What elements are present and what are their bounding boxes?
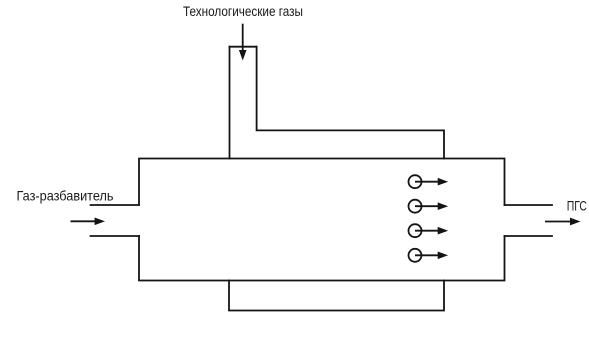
nozzle 2 (circle with jet arrow) <box>409 200 447 213</box>
arrow: product gas mixture outlet flow <box>545 218 579 224</box>
arrow: diluent gas inlet flow <box>71 218 104 224</box>
nozzle 1 (circle with jet arrow) <box>409 175 447 188</box>
svg-text:ПГС: ПГС <box>567 197 587 213</box>
top feed pipe left wall (Технологические газы) <box>229 47 231 159</box>
bottom tray under vessel <box>229 281 444 311</box>
nozzle 4 (circle with jet arrow) <box>409 249 447 262</box>
svg-text:Технологические газы: Технологические газы <box>183 3 303 19</box>
vessel (mixing chamber) lower wall outline <box>139 236 505 281</box>
outlet pipe lower wall (ПГС) <box>505 235 553 237</box>
label: ПГС <box>567 197 587 213</box>
vessel (mixing chamber) upper wall outline <box>139 159 505 206</box>
nozzle 3 (circle with jet arrow) <box>409 224 447 237</box>
top feed pipe cap <box>230 46 257 48</box>
label: Газ-разбавитель <box>17 188 114 204</box>
inlet pipe upper wall (Газ-разбавитель) <box>91 204 140 206</box>
inlet pipe lower wall (Газ-разбавитель) <box>91 235 140 237</box>
svg-text:Газ-разбавитель: Газ-разбавитель <box>17 188 114 204</box>
outlet pipe upper wall (ПГС) <box>505 204 553 206</box>
top feed pipe right wall turning into distribution duct <box>257 47 444 159</box>
label: Технологические газы <box>183 3 303 19</box>
arrow: technological gases flow into top pipe <box>240 24 246 59</box>
